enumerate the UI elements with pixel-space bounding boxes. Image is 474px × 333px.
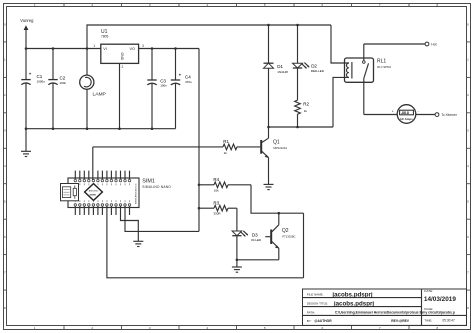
- regulator U1 7805: [93, 29, 144, 129]
- pin 2 wire: [119, 63, 121, 128]
- wire to meter: [364, 114, 397, 116]
- junction: [86, 47, 89, 50]
- junction: [25, 47, 28, 50]
- pads bottom: [74, 204, 131, 206]
- junction: [236, 259, 239, 262]
- svg-text:R4: R4: [213, 177, 219, 182]
- junction: [86, 127, 89, 130]
- led D2: [293, 25, 325, 100]
- svg-text:VI: VI: [103, 47, 107, 51]
- SECTION: nano: [61, 147, 304, 278]
- junction: [267, 24, 270, 27]
- svg-text:1k: 1k: [224, 151, 228, 155]
- wire top rail riser: [87, 25, 331, 49]
- svg-text:Q1: Q1: [273, 140, 280, 146]
- svg-text:C2: C2: [60, 76, 66, 81]
- svg-text:ARDUINO: ARDUINO: [89, 190, 99, 193]
- svg-text:330R: 330R: [213, 212, 221, 216]
- junction: [198, 184, 201, 187]
- svg-text:PATH:: PATH:: [307, 311, 316, 315]
- svg-text:14/03/2019: 14/03/2019: [424, 296, 456, 303]
- svg-text:FILE NAME:: FILE NAME:: [307, 292, 324, 296]
- svg-text:1k: 1k: [304, 109, 308, 113]
- junction: [25, 127, 28, 130]
- wire to nano A0: [303, 213, 305, 278]
- SECTION: relay: [264, 24, 458, 129]
- junction: [52, 127, 55, 130]
- svg-text:LAMP: LAMP: [93, 92, 106, 98]
- resistor R3: [199, 201, 237, 216]
- resistor R4: [199, 177, 251, 192]
- capacitor C1: [21, 49, 45, 129]
- svg-text:GND: GND: [120, 53, 124, 61]
- svg-text:@AUTHOR: @AUTHOR: [314, 319, 332, 323]
- svg-text:nano: nano: [90, 194, 97, 197]
- svg-text:PAGE:: PAGE:: [424, 307, 433, 311]
- SECTION: sensor: [93, 127, 304, 278]
- svg-text:BY:: BY:: [307, 319, 312, 323]
- svg-text:1000u: 1000u: [37, 80, 46, 84]
- svg-text:SIMULINO NANO: SIMULINO NANO: [142, 185, 171, 189]
- ground: [264, 184, 274, 189]
- junction: [52, 47, 55, 50]
- wire gnd pin: [121, 206, 139, 242]
- svg-text:D1: D1: [277, 64, 283, 69]
- svg-text:7805: 7805: [101, 34, 109, 38]
- svg-text:WWW.ARDUINO.CC: WWW.ARDUINO.CC: [134, 183, 137, 204]
- node Vunreg: [20, 18, 34, 48]
- svg-text:100n: 100n: [60, 81, 67, 85]
- junction: [296, 24, 299, 27]
- svg-text:C3: C3: [160, 78, 166, 83]
- module SIM1 SIMULINO NANO: [68, 178, 171, 208]
- pin stubs top: [75, 171, 129, 179]
- svg-text:TIME:: TIME:: [424, 319, 432, 323]
- svg-text:C1: C1: [37, 74, 43, 79]
- svg-text:SIM1: SIM1: [142, 178, 155, 184]
- terminal Hot: [425, 42, 429, 46]
- svg-text:10k: 10k: [214, 188, 219, 192]
- pin stubs bottom: [75, 206, 129, 215]
- svg-text:RED-LED: RED-LED: [311, 69, 325, 73]
- svg-text:-88.8: -88.8: [401, 111, 409, 115]
- wire top rail drop to relay: [331, 25, 349, 63]
- junction: [198, 207, 201, 210]
- svg-text:C4: C4: [185, 75, 191, 80]
- capacitor C2: [48, 49, 66, 129]
- title block box: [303, 289, 467, 325]
- svg-text:Q2: Q2: [282, 228, 289, 234]
- svg-text:RLY-SPNO: RLY-SPNO: [377, 65, 392, 69]
- svg-text:D3: D3: [252, 233, 258, 238]
- junction: [267, 126, 270, 129]
- svg-text:+: +: [29, 72, 32, 77]
- svg-text:R3: R3: [213, 201, 219, 206]
- wire to xformer: [416, 114, 435, 116]
- junction: [118, 127, 121, 130]
- svg-text:Hot: Hot: [431, 43, 436, 47]
- svg-text:1N4148: 1N4148: [277, 70, 288, 74]
- usb connector: [61, 184, 79, 201]
- wire VO rail: [139, 48, 199, 50]
- svg-text:RL1: RL1: [377, 58, 386, 64]
- svg-text:2: 2: [122, 65, 124, 69]
- ground: [21, 129, 31, 157]
- svg-text:AC Amps: AC Amps: [400, 117, 413, 121]
- wire D pin to R1: [92, 147, 94, 180]
- svg-text:100n: 100n: [160, 84, 167, 88]
- svg-text:+: +: [179, 72, 182, 77]
- svg-text:REV:@REV: REV:@REV: [391, 319, 409, 323]
- junction: [174, 47, 177, 50]
- terminal To Xformer: [435, 113, 439, 117]
- svg-text:-: -: [418, 110, 419, 114]
- lamp LAMP: [80, 49, 106, 129]
- svg-text:VO: VO: [130, 47, 136, 51]
- svg-text:IR-LED: IR-LED: [251, 238, 262, 242]
- wire VO riser: [198, 49, 200, 232]
- svg-text:3: 3: [142, 44, 144, 48]
- svg-text:jacobs.pdsprj: jacobs.pdsprj: [333, 301, 375, 308]
- meter AC Amps: [392, 105, 419, 124]
- svg-text:To Xformer: To Xformer: [441, 113, 458, 117]
- svg-text:C:\Users\Ing.Emmanuel Herrera\: C:\Users\Ing.Emmanuel Herrera\Documents\…: [335, 311, 455, 315]
- wire 5V pin: [125, 206, 199, 232]
- ground: [232, 260, 242, 272]
- logo diamond: [85, 184, 103, 201]
- capacitor C3: [147, 49, 167, 129]
- diode D1: [264, 25, 289, 127]
- wire ground rail: [26, 128, 176, 130]
- led D3 IR-LED: [232, 208, 262, 260]
- svg-text:R1: R1: [223, 139, 229, 144]
- wire Hot: [364, 43, 425, 45]
- svg-text:DESIGN TITLE:: DESIGN TITLE:: [307, 302, 328, 306]
- junction: [151, 47, 154, 50]
- svg-text:D2: D2: [311, 64, 317, 69]
- wire collector rail: [269, 126, 334, 128]
- svg-text:+: +: [392, 110, 394, 114]
- svg-text:470u: 470u: [185, 80, 192, 84]
- wire R4 to Q2 collector node: [251, 185, 304, 213]
- wire VI rail: [26, 48, 101, 50]
- relay RL1: [345, 44, 392, 115]
- svg-text:MPS2222A: MPS2222A: [273, 146, 287, 150]
- ground: [133, 241, 143, 246]
- svg-text:DATE:: DATE:: [424, 289, 433, 293]
- svg-text:05:30:47: 05:30:47: [442, 319, 455, 323]
- junction: [151, 127, 154, 130]
- transistor Q2 PT1302BC: [237, 213, 296, 260]
- svg-text:R2: R2: [303, 101, 309, 106]
- svg-text:1: 1: [93, 44, 95, 48]
- transistor Q1 MPS2222A: [260, 127, 287, 184]
- wire A0 to sensor: [107, 206, 304, 278]
- junction: [296, 126, 299, 129]
- resistor R1: [93, 139, 260, 155]
- svg-text:Vunreg: Vunreg: [20, 18, 34, 23]
- svg-text:PT1302BC: PT1302BC: [282, 234, 295, 238]
- capacitor C4: [171, 49, 192, 129]
- pin number marks: [75, 183, 130, 202]
- resistor R2: [295, 100, 310, 127]
- SECTION: power: [20, 18, 349, 231]
- wire relay coil return: [333, 77, 349, 127]
- svg-text:jacobs.pdsprj: jacobs.pdsprj: [331, 291, 373, 298]
- SECTION: titleblock: [303, 289, 467, 325]
- junction: [278, 212, 281, 215]
- pads top: [74, 179, 131, 181]
